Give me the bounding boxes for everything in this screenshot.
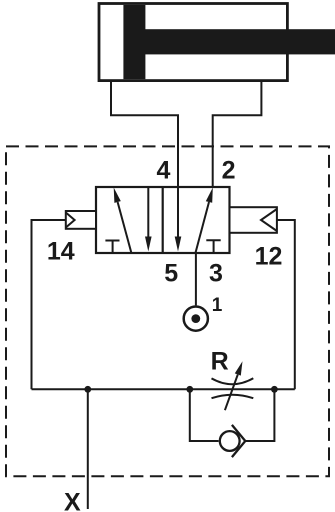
wire cylinder right port [213,81,262,187]
svg-text:5: 5 [164,259,178,287]
valve left box blocked port T [105,241,119,254]
piston rod [145,29,335,54]
valve right box down arrow [175,187,182,252]
junction throttle left [186,386,193,393]
svg-text:X: X [64,488,81,512]
wire cylinder left port [111,81,178,187]
junction X branch [84,386,91,393]
svg-text:1: 1 [212,295,223,316]
svg-text:2: 2 [222,157,236,185]
check valve [220,425,246,457]
svg-text:3: 3 [209,259,223,287]
pilot 12 box [230,207,277,233]
valve right box blocked port T [206,240,220,253]
junction throttle right [271,386,278,393]
wire check valve branch left [190,389,219,441]
cylinder body [99,4,287,81]
throttle R arcs [212,378,254,398]
wire pilot 14 to bus [32,220,66,389]
valve left box diagonal arrow [114,188,132,254]
valve right box diagonal arrow [195,188,213,254]
valve U1 body [96,187,230,253]
throttle R adjust arrow [225,361,243,410]
wire X branch [87,389,89,509]
wire port 1 [195,253,197,305]
svg-text:12: 12 [255,243,283,271]
pilot 14 box [66,211,96,229]
svg-text:4: 4 [157,157,171,185]
svg-text:R: R [211,348,229,376]
air supply source [184,307,208,331]
wire bus [32,388,295,390]
wire check valve branch right [245,389,274,441]
svg-text:14: 14 [47,238,75,266]
dashed enclosure [6,146,329,476]
wire bus to pilot 12 [277,220,295,389]
valve left box down arrow [145,187,152,252]
piston [123,5,145,79]
